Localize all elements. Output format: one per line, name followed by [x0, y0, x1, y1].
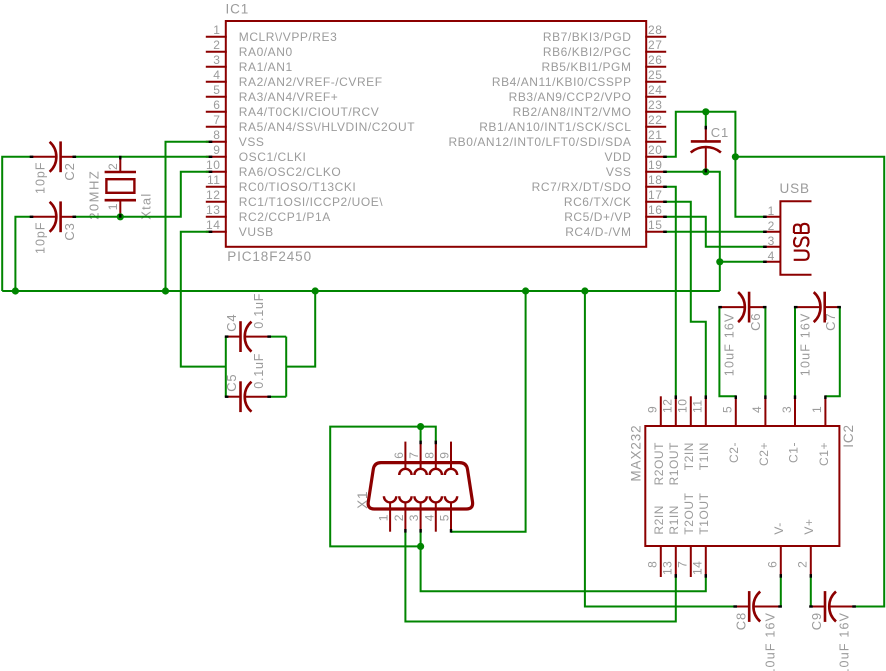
wire C6 left to MAX232 pin5	[719, 307, 735, 396]
svg-text:6: 6	[392, 452, 406, 459]
svg-text:6: 6	[213, 98, 220, 112]
capacitor C9	[810, 591, 855, 622]
svg-text:2: 2	[768, 219, 775, 233]
svg-text:V+: V+	[802, 518, 816, 534]
svg-text:1: 1	[768, 204, 775, 218]
svg-text:12: 12	[206, 188, 220, 202]
wire X1 pin8 branch	[421, 427, 436, 443]
svg-text:RC7/RX/DT/SDO: RC7/RX/DT/SDO	[532, 180, 632, 194]
svg-text:10: 10	[676, 399, 690, 413]
IC1 right pin names	[448, 30, 631, 239]
svg-text:VSS: VSS	[239, 135, 265, 149]
capacitor C1	[691, 112, 721, 170]
svg-text:R2IN: R2IN	[652, 505, 666, 535]
svg-text:IC1: IC1	[226, 1, 250, 16]
svg-text:RB0/AN12/INT0/LFT0/SDI/SDA: RB0/AN12/INT0/LFT0/SDI/SDA	[448, 135, 631, 149]
junction X1 pin7/loopback	[417, 423, 424, 430]
svg-text:C6: C6	[748, 313, 763, 331]
svg-text:6: 6	[766, 561, 780, 568]
capacitor C3	[31, 201, 75, 232]
X1 top pin numbers 6-9	[392, 452, 452, 459]
svg-text:9: 9	[438, 452, 452, 459]
X1 bottom pin numbers 1-5	[377, 514, 452, 521]
svg-text:7: 7	[676, 561, 690, 568]
svg-text:RB6/KBI2/PGC: RB6/KBI2/PGC	[543, 45, 632, 59]
svg-text:V-: V-	[772, 522, 786, 534]
X1 bottom pins 1-5	[384, 496, 457, 532]
svg-text:11: 11	[691, 399, 705, 413]
capacitor C2	[31, 141, 75, 172]
svg-text:RB2/AN8/INT2/VMO: RB2/AN8/INT2/VMO	[513, 105, 632, 119]
capacitor C6	[719, 292, 765, 323]
label X1	[355, 491, 370, 509]
svg-text:C2: C2	[62, 162, 77, 180]
svg-text:RA2/AN2/VREF-/CVREF: RA2/AN2/VREF-/CVREF	[239, 75, 383, 89]
capacitor C8	[735, 591, 781, 622]
svg-text:Xtal: Xtal	[139, 193, 154, 220]
svg-text:0.1uF: 0.1uF	[252, 293, 266, 329]
wire VDD pin20 up and over	[666, 112, 765, 217]
svg-text:RC6/TX/CK: RC6/TX/CK	[564, 195, 632, 209]
wire ground rail to C8	[585, 291, 735, 607]
svg-text:VUSB: VUSB	[239, 225, 274, 239]
svg-text:X1: X1	[355, 491, 370, 509]
svg-text:18: 18	[648, 173, 662, 187]
IC2 bottom pin names	[652, 492, 816, 534]
junction VDD branch	[732, 153, 739, 160]
svg-text:R2OUT: R2OUT	[652, 442, 666, 486]
svg-text:RA0/AN0: RA0/AN0	[239, 45, 293, 59]
svg-text:VSS: VSS	[606, 165, 632, 179]
svg-text:3: 3	[780, 406, 794, 413]
svg-text:T1OUT: T1OUT	[697, 492, 711, 534]
svg-text:RC1/T1OSI/ICCP2/UOE\: RC1/T1OSI/ICCP2/UOE\	[239, 195, 383, 209]
svg-text:R1IN: R1IN	[667, 505, 681, 535]
svg-text:8: 8	[646, 561, 660, 568]
IC2 top pin stubs	[661, 396, 826, 427]
wire MAX232 T1OUT to X1 pin3	[421, 532, 706, 592]
label IC2	[841, 424, 856, 448]
svg-text:9: 9	[646, 406, 660, 413]
svg-text:C1: C1	[711, 125, 729, 140]
value 10uF 16V of C7	[799, 312, 813, 376]
capacitor C4	[226, 321, 270, 352]
svg-text:12: 12	[661, 399, 675, 413]
label C3	[62, 222, 77, 240]
value 10uF 16V of C8	[764, 612, 778, 671]
junction C1 top/VDD	[702, 108, 709, 115]
svg-text:1: 1	[106, 203, 120, 210]
svg-text:0.1uF: 0.1uF	[252, 353, 266, 389]
svg-text:8: 8	[213, 128, 220, 142]
crystal pin number 2	[106, 163, 120, 170]
value 10uF 16V of C6	[722, 312, 736, 376]
svg-text:RB5/KBI1/PGM: RB5/KBI1/PGM	[542, 60, 632, 74]
junction C4C5/ground rail	[312, 287, 319, 294]
svg-text:3: 3	[213, 53, 220, 67]
svg-text:25: 25	[648, 68, 662, 82]
junction C1 bottom/VSS	[702, 168, 709, 175]
wire VSS pin19 to USB pin4	[666, 172, 720, 291]
svg-text:28: 28	[648, 23, 662, 37]
junction C3/ground rail	[12, 287, 19, 294]
USB pin numbers 1-4	[768, 204, 775, 263]
IC2 bottom pin stubs	[661, 545, 811, 577]
svg-text:8: 8	[422, 452, 436, 459]
wire X1 loopback frame	[330, 427, 420, 547]
label C8	[734, 612, 749, 630]
wire VUSB pin14 to C4/C5	[181, 232, 226, 367]
svg-text:R1OUT: R1OUT	[667, 442, 681, 486]
svg-text:RC4/D-/VM: RC4/D-/VM	[565, 225, 631, 239]
wire MAX232 R1IN to X1 pin2	[405, 532, 675, 622]
svg-text:RC5/D+/VP: RC5/D+/VP	[564, 210, 631, 224]
label C2	[62, 162, 77, 180]
value 0.1uF of C5	[252, 353, 266, 389]
crystal Xtal 20MHZ	[105, 157, 136, 217]
IC IC1 PIC18F2450 microcontroller body	[226, 21, 646, 247]
wire C4 right	[270, 336, 286, 338]
svg-text:26: 26	[648, 53, 662, 67]
value 20MHZ	[86, 170, 101, 220]
svg-text:3: 3	[768, 234, 775, 248]
svg-text:10uF 16V: 10uF 16V	[722, 312, 736, 376]
svg-text:13: 13	[661, 561, 675, 575]
svg-text:PIC18F2450: PIC18F2450	[227, 249, 312, 264]
svg-text:21: 21	[648, 128, 662, 142]
connector USB	[764, 201, 811, 275]
svg-text:10: 10	[206, 158, 220, 172]
wire C4/C5 left vertical	[225, 337, 227, 397]
svg-text:23: 23	[648, 98, 662, 112]
svg-text:5: 5	[438, 514, 452, 521]
IC2 top pin numbers	[646, 399, 825, 413]
wire USB pin4 branch	[720, 261, 765, 263]
wire OSC2 pin10 to crystal and C3	[75, 172, 209, 217]
svg-text:RA3/AN4/VREF+: RA3/AN4/VREF+	[239, 90, 339, 104]
svg-text:7: 7	[407, 452, 421, 459]
svg-text:19: 19	[648, 158, 662, 172]
svg-text:20: 20	[648, 143, 662, 157]
wire TX pin17 to MAX232 T1IN	[666, 202, 706, 396]
label IC1	[226, 1, 250, 16]
X1 top pins 6-9	[399, 442, 457, 475]
svg-text:14: 14	[691, 561, 705, 575]
svg-text:1: 1	[810, 406, 824, 413]
wire X1 pin7 drop	[420, 427, 422, 443]
svg-text:4: 4	[422, 514, 436, 521]
wire C6 right to MAX232 pin4	[764, 307, 766, 396]
svg-text:VDD: VDD	[605, 150, 632, 164]
value 10uF 16V of C9	[838, 612, 852, 671]
svg-text:C7: C7	[823, 313, 838, 331]
svg-text:2: 2	[392, 514, 406, 521]
svg-text:RA1/AN1: RA1/AN1	[239, 60, 293, 74]
IC IC2 MAX232 body	[645, 426, 839, 546]
label C6	[748, 313, 763, 331]
svg-text:MCLR\/VPP/RE3: MCLR\/VPP/RE3	[239, 30, 338, 44]
capacitor C7	[795, 292, 840, 323]
svg-text:C9: C9	[809, 612, 824, 630]
value 0.1uF of C4	[252, 293, 266, 329]
svg-text:OSC1/CLKI: OSC1/CLKI	[239, 150, 307, 164]
svg-text:C1-: C1-	[786, 442, 800, 463]
value 10pF of C3	[33, 222, 47, 255]
svg-text:4: 4	[213, 68, 220, 82]
value label PIC18F2450	[227, 249, 312, 264]
svg-text:RA4/T0CKI/CIOUT/RCV: RA4/T0CKI/CIOUT/RCV	[239, 105, 379, 119]
wire C2 to ground rail	[2, 157, 31, 291]
svg-text:27: 27	[648, 38, 662, 52]
svg-text:13: 13	[206, 203, 220, 217]
svg-text:17: 17	[648, 188, 662, 202]
svg-text:C3: C3	[62, 222, 77, 240]
svg-text:MAX232: MAX232	[629, 424, 644, 481]
wire D+ pin16 to USB pin3	[666, 217, 765, 247]
svg-text:C8: C8	[734, 612, 749, 630]
svg-text:10pF: 10pF	[33, 162, 47, 195]
svg-text:14: 14	[206, 218, 220, 232]
svg-text:5: 5	[213, 83, 220, 97]
label C4	[224, 314, 239, 332]
wire C5 right	[270, 396, 286, 398]
value 10pF of C2	[33, 162, 47, 195]
label MAX232	[629, 424, 644, 481]
wire OSC1 pin9 to C2	[75, 156, 209, 158]
label C1	[711, 125, 729, 140]
label USB (gray)	[780, 181, 810, 196]
wire C7 left to MAX232 pin3	[794, 307, 796, 396]
wire RX pin18 to MAX232 R1OUT	[666, 187, 676, 396]
IC1 right pin numbers 28-15	[648, 23, 662, 232]
svg-text:C4: C4	[224, 314, 239, 332]
junction C8 gnd/ground rail	[581, 287, 588, 294]
wire C7 right to MAX232 pin1	[825, 307, 839, 396]
svg-text:RC0/TIOSO/T13CKI: RC0/TIOSO/T13CKI	[239, 180, 356, 194]
svg-text:C2+: C2+	[757, 442, 771, 466]
wire ground rail to X1 pin5	[451, 291, 526, 532]
IC1 left pins 1-14 stubs	[206, 37, 227, 232]
svg-text:20MHZ: 20MHZ	[86, 170, 101, 220]
junction VSS/ground rail	[162, 287, 169, 294]
junction crystal pin1/C3 net	[117, 213, 124, 220]
label Xtal	[139, 193, 154, 220]
svg-text:USB: USB	[780, 181, 810, 196]
IC2 bottom pin numbers	[646, 561, 810, 575]
svg-text:16: 16	[648, 203, 662, 217]
svg-text:7: 7	[213, 113, 220, 127]
svg-text:RB1/AN10/INT1/SCK/SCL: RB1/AN10/INT1/SCK/SCL	[479, 120, 631, 134]
svg-text:1: 1	[377, 514, 391, 521]
svg-text:C1+: C1+	[817, 442, 831, 466]
junction USB pin4/VSS	[716, 258, 723, 265]
label C5	[224, 374, 239, 392]
wire MAX232 V+ to C9	[810, 577, 812, 607]
svg-text:15: 15	[648, 218, 662, 232]
label C9	[809, 612, 824, 630]
svg-text:2: 2	[213, 38, 220, 52]
IC1 right pins 28-15 stubs	[645, 37, 666, 232]
svg-text:T1IN: T1IN	[697, 442, 711, 470]
capacitor C5	[226, 381, 270, 412]
svg-text:C2-: C2-	[727, 442, 741, 463]
svg-text:4: 4	[768, 249, 775, 263]
wire C4/C5 to ground rail	[286, 291, 315, 367]
svg-text:10uF 16V: 10uF 16V	[764, 612, 778, 671]
wire C4/C5 right vertical	[285, 337, 287, 397]
svg-text:RA5/AN4/SS\/HLVDIN/C2OUT: RA5/AN4/SS\/HLVDIN/C2OUT	[239, 120, 415, 134]
svg-text:2: 2	[106, 163, 120, 170]
label C7	[823, 313, 838, 331]
svg-text:RC2/CCP1/P1A: RC2/CCP1/P1A	[239, 210, 331, 224]
svg-text:10uF 16V: 10uF 16V	[799, 312, 813, 376]
svg-text:T2IN: T2IN	[682, 442, 696, 470]
svg-text:9: 9	[213, 143, 220, 157]
svg-text:T2OUT: T2OUT	[682, 492, 696, 534]
wire D- pin15 to USB pin2	[666, 231, 765, 233]
wire MAX232 V- to C8	[780, 577, 782, 607]
junction X1 gnd/ground rail	[522, 287, 529, 294]
svg-text:IC2: IC2	[841, 424, 856, 448]
crystal pin number 1	[106, 203, 120, 210]
IC2 top pin names	[652, 442, 831, 486]
IC1 left pin names	[239, 30, 415, 239]
junction X1 pin3/loopback	[417, 543, 424, 550]
svg-text:10uF 16V: 10uF 16V	[838, 612, 852, 671]
IC1 left pin numbers 1-14	[206, 23, 220, 232]
svg-text:10pF: 10pF	[33, 222, 47, 255]
wire ground rail	[2, 290, 720, 292]
svg-text:RA6/OSC2/CLKO: RA6/OSC2/CLKO	[239, 165, 342, 179]
svg-text:3: 3	[407, 514, 421, 521]
svg-text:11: 11	[207, 173, 221, 187]
label USB (red, rotated)	[794, 224, 809, 260]
wire VDD branch to right edge	[735, 157, 884, 607]
svg-text:RB4/AN11/KBI0/CSSPP: RB4/AN11/KBI0/CSSPP	[492, 75, 632, 89]
svg-text:4: 4	[750, 406, 764, 413]
connector X1 DB9 trapezoid	[368, 463, 472, 509]
svg-text:24: 24	[648, 83, 662, 97]
svg-text:RB7/BKI3/PGD: RB7/BKI3/PGD	[543, 30, 632, 44]
svg-text:1: 1	[213, 23, 220, 37]
pin connection marks	[30, 126, 856, 608]
svg-text:RB3/AN9/CCP2/VPO: RB3/AN9/CCP2/VPO	[509, 90, 632, 104]
svg-text:22: 22	[648, 113, 662, 127]
wire VSS pin8 to ground rail	[166, 142, 210, 291]
wire C3 to ground rail	[15, 217, 31, 291]
svg-text:2: 2	[796, 561, 810, 568]
svg-text:5: 5	[721, 406, 735, 413]
